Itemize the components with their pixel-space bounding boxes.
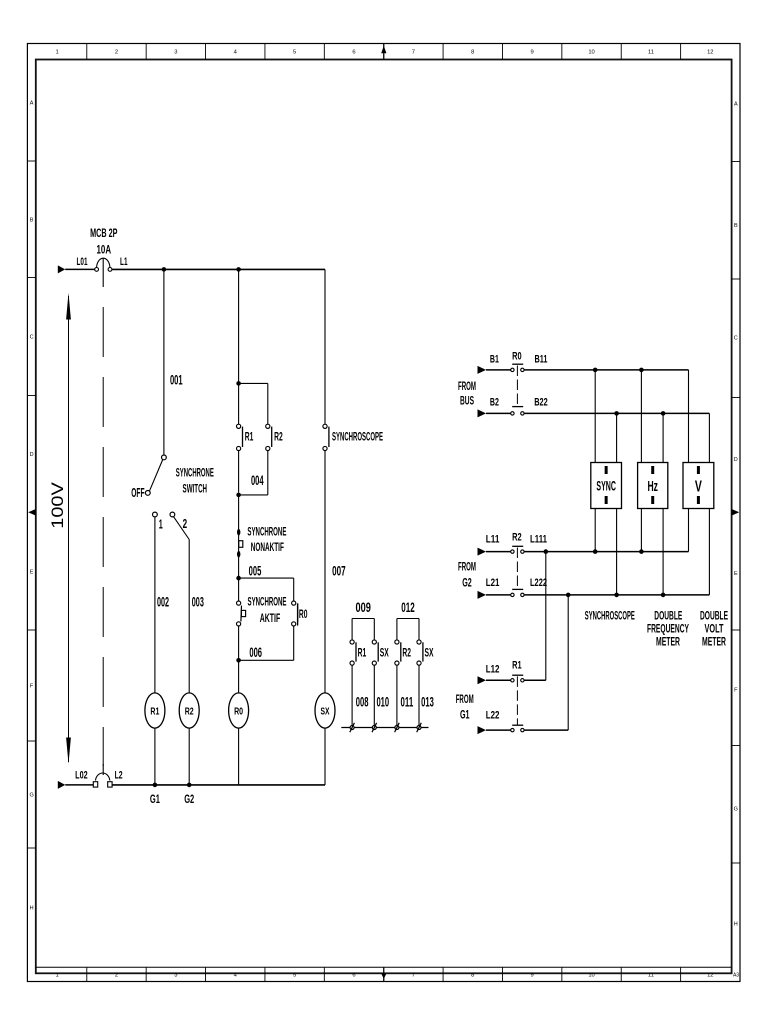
svg-text:SYNCHROSCOPE: SYNCHROSCOPE: [332, 431, 383, 443]
svg-text:10: 10: [588, 49, 594, 55]
contact aktif pushbutton: [237, 601, 246, 626]
lamp SX: [315, 693, 335, 728]
label L01: [77, 256, 88, 268]
lamp R0: [229, 693, 249, 728]
label L11: [486, 534, 500, 546]
junction at R0 column tap: [236, 267, 241, 272]
svg-text:R0: R0: [512, 350, 522, 362]
wire R1 contact down: [238, 451, 240, 493]
svg-text:004: 004: [251, 473, 264, 488]
wire top bus L1: [112, 268, 325, 270]
terminal 011: [395, 723, 400, 732]
svg-text:G: G: [734, 807, 738, 813]
svg-text:2: 2: [183, 516, 188, 531]
svg-text:5: 5: [293, 49, 296, 55]
wire aktif left lower: [238, 626, 240, 660]
input arrow L11: [478, 548, 487, 556]
svg-text:12: 12: [707, 49, 713, 55]
svg-text:2: 2: [115, 973, 118, 979]
wire L111 to G1 row: [545, 552, 547, 681]
breaker R0 pole 2: [511, 407, 524, 415]
breaker R2 link (dashed): [516, 548, 518, 590]
svg-text:11: 11: [648, 973, 654, 979]
input arrow L12: [478, 676, 487, 684]
label OFF: [131, 485, 144, 500]
input arrow L22: [478, 726, 487, 734]
svg-text:DOUBLE: DOUBLE: [700, 610, 728, 622]
wire R0 column to lamp: [238, 660, 240, 693]
wire L21: [486, 594, 511, 596]
wire bottom bus L2: [112, 784, 325, 786]
svg-text:B2: B2: [490, 396, 499, 408]
label L1: [120, 256, 128, 268]
wire aktif right upper: [293, 578, 295, 601]
svg-text:E: E: [734, 571, 738, 577]
breaker R2 pole 2: [511, 589, 524, 596]
label 001: [170, 373, 183, 388]
breaker R1 pole 2: [511, 725, 524, 732]
label FROM G2: [458, 560, 476, 590]
indicator SYNCHRONE NONAKTIF: [237, 529, 243, 558]
circuit breaker MCB pole 2: [93, 764, 112, 787]
dimension arrow 100V: [66, 293, 71, 764]
label 10A: [97, 244, 112, 256]
svg-text:H: H: [30, 906, 34, 912]
label SYNCHROSCOPE switch: [332, 431, 383, 443]
svg-text:G1: G1: [460, 708, 470, 722]
wire L22: [486, 729, 511, 731]
input arrow L02: [58, 781, 65, 789]
svg-text:DOUBLE: DOUBLE: [654, 610, 682, 622]
label R1 link: [512, 659, 522, 671]
svg-text:G1: G1: [150, 792, 160, 806]
svg-text:D: D: [30, 452, 34, 458]
svg-text:NONAKTIF: NONAKTIF: [251, 542, 284, 554]
switch position contact 1: [153, 512, 158, 517]
svg-text:R1: R1: [512, 659, 522, 671]
label R2: [274, 431, 283, 443]
svg-text:7: 7: [412, 49, 415, 55]
label L22: [486, 709, 500, 721]
svg-text:B: B: [734, 223, 738, 229]
junction node 004 bottom: [236, 493, 241, 498]
svg-text:SYNCHROSCOPE: SYNCHROSCOPE: [585, 610, 635, 622]
wire 001 from bus to switch: [163, 269, 165, 455]
label 002: [157, 594, 169, 609]
wire L222 to G1 row: [567, 595, 569, 730]
svg-text:L111: L111: [530, 534, 547, 546]
svg-text:005: 005: [249, 563, 262, 578]
junction L111-sync: [593, 549, 598, 554]
label SYNCHRONE SWITCH: [176, 467, 214, 495]
label R1: [245, 431, 254, 443]
label synchroscope meter: [585, 610, 635, 622]
wire 005 top bar: [239, 577, 294, 579]
switch position contact 2: [170, 512, 175, 517]
label 2: [183, 516, 188, 531]
input arrow B1: [478, 366, 487, 374]
junction node 004 top: [236, 381, 241, 386]
svg-text:L222: L222: [530, 577, 547, 589]
svg-text:B11: B11: [535, 353, 548, 365]
switch blade to OFF: [150, 460, 163, 491]
input arrow L01: [58, 265, 65, 273]
svg-text:3: 3: [174, 49, 177, 55]
wire B1: [486, 369, 511, 371]
svg-text:FREQUENCY: FREQUENCY: [647, 624, 689, 636]
label L02: [75, 770, 88, 782]
label B11: [535, 353, 548, 365]
svg-text:010: 010: [376, 694, 389, 709]
label 005: [249, 563, 262, 578]
svg-text:5: 5: [293, 973, 296, 979]
lamp R2: [179, 693, 199, 728]
meter SYNC (synchroscope): [591, 463, 622, 509]
wire B2: [486, 412, 511, 414]
wire aktif left upper: [238, 578, 240, 601]
junction B22-sync: [614, 411, 619, 416]
wire L22 to L222 feeder: [524, 729, 568, 731]
svg-text:FROM: FROM: [458, 560, 476, 574]
svg-text:007: 007: [332, 564, 346, 579]
svg-text:METER: METER: [702, 637, 726, 649]
svg-text:1: 1: [55, 49, 58, 55]
wire L111 bus: [524, 551, 688, 553]
wire aktif right lower: [293, 626, 295, 660]
svg-text:G: G: [29, 793, 33, 799]
svg-text:6: 6: [352, 973, 355, 979]
label B1: [490, 353, 499, 365]
label 003: [192, 594, 204, 609]
wire R2 contact down: [267, 451, 269, 495]
svg-text:8: 8: [471, 973, 474, 979]
svg-text:METER: METER: [656, 637, 680, 649]
breaker R0 pole 1: [511, 364, 524, 371]
label B22: [534, 396, 548, 408]
svg-text:SYNCHRONE: SYNCHRONE: [176, 467, 214, 479]
svg-text:SYNCHRONE: SYNCHRONE: [247, 527, 286, 539]
terminal 008: [350, 723, 355, 732]
svg-text:OFF: OFF: [131, 485, 144, 500]
svg-text:SX: SX: [321, 705, 330, 717]
junction L111-hz: [639, 549, 644, 554]
svg-text:011: 011: [401, 694, 414, 709]
terminal 010: [372, 723, 377, 732]
wire L11: [486, 551, 511, 553]
label L21: [486, 577, 500, 589]
label 007: [332, 564, 346, 579]
terminal rail: [341, 727, 428, 729]
svg-text:SYNCHRONE: SYNCHRONE: [248, 597, 287, 609]
label double frequency meter: [647, 610, 689, 648]
svg-text:R0: R0: [299, 609, 308, 621]
svg-text:10A: 10A: [97, 244, 112, 256]
label R0 link: [512, 350, 522, 362]
svg-text:L1: L1: [120, 256, 128, 268]
input arrow B2: [478, 409, 487, 417]
svg-text:B: B: [30, 217, 34, 223]
wire L01 to breaker: [65, 268, 94, 270]
svg-text:SWITCH: SWITCH: [183, 484, 208, 496]
junction L222 feeder: [566, 593, 571, 598]
junction L222-hz: [661, 593, 666, 598]
wire lamp R2 to bus: [188, 728, 190, 785]
label FROM BUS: [458, 379, 476, 407]
switch OFF terminal: [145, 491, 150, 496]
svg-text:8: 8: [471, 49, 474, 55]
label MCB 2P: [90, 228, 118, 240]
wire SX column upper: [324, 269, 326, 424]
wire B11 bus: [524, 369, 688, 371]
svg-text:VOLT: VOLT: [705, 624, 724, 636]
svg-text:L22: L22: [486, 709, 500, 721]
svg-text:L11: L11: [486, 534, 500, 546]
wire R0 column upper: [238, 269, 240, 424]
contact SYNCHROSCOPE: [323, 424, 329, 450]
breaker R2 pole 1: [511, 546, 524, 553]
svg-text:SX: SX: [425, 647, 434, 659]
input arrow L21: [478, 591, 487, 599]
svg-text:SX: SX: [380, 647, 389, 659]
svg-text:Hz: Hz: [647, 478, 658, 495]
svg-text:R2: R2: [402, 647, 411, 659]
junction L111 feeder: [544, 549, 549, 554]
svg-text:9: 9: [531, 973, 534, 979]
contact R0: [292, 601, 298, 626]
selector switch pivot: [162, 455, 167, 460]
wire L12: [486, 679, 511, 681]
svg-text:L01: L01: [77, 256, 88, 268]
contact block 012 (R2/SX): [395, 600, 434, 725]
svg-text:D: D: [734, 457, 738, 463]
breaker R0 link (dashed): [516, 366, 518, 407]
wire 006 bottom bar: [239, 659, 294, 661]
svg-text:L2: L2: [115, 770, 123, 782]
wire 004 top bar: [239, 382, 268, 384]
contact block 009 (R1/SX): [350, 600, 389, 725]
svg-text:SYNC: SYNC: [596, 478, 616, 493]
lamp R1: [145, 693, 165, 728]
svg-text:1: 1: [55, 973, 58, 979]
svg-text:R2: R2: [274, 431, 283, 443]
label 006: [249, 645, 262, 660]
label SYNCHRONE AKTIF: [248, 597, 287, 626]
svg-text:R1: R1: [358, 647, 367, 659]
wire R0 column mid1: [238, 495, 240, 578]
svg-text:E: E: [30, 569, 34, 575]
contact R2: [266, 424, 272, 450]
svg-text:009: 009: [356, 600, 371, 615]
svg-text:6: 6: [352, 49, 355, 55]
circuit breaker MCB pole 1: [95, 258, 112, 287]
svg-text:R2: R2: [185, 705, 194, 717]
label G2: [184, 792, 194, 806]
svg-text:V: V: [695, 478, 702, 495]
breaker R1 link (dashed): [516, 676, 518, 725]
svg-text:A3: A3: [733, 972, 739, 978]
wire volt left feeder: [688, 370, 690, 552]
svg-text:2: 2: [115, 49, 118, 55]
svg-text:L21: L21: [486, 577, 500, 589]
svg-text:11: 11: [648, 49, 654, 55]
meter V (volt): [683, 463, 714, 509]
junction at switch 001 tap: [162, 267, 167, 272]
wire R2 branch upper: [267, 383, 269, 424]
svg-text:G2: G2: [462, 575, 472, 589]
label double volt meter: [700, 610, 728, 648]
svg-text:3: 3: [174, 973, 177, 979]
svg-text:013: 013: [421, 694, 434, 709]
svg-text:006: 006: [249, 645, 262, 660]
svg-text:C: C: [734, 336, 738, 342]
svg-text:C: C: [30, 335, 34, 341]
wire L02 to breaker: [65, 784, 93, 786]
meter Hz (frequency): [638, 463, 668, 509]
label L2: [115, 770, 123, 782]
label G1: [150, 792, 160, 806]
label FROM G1: [456, 692, 474, 722]
svg-text:MCB 2P: MCB 2P: [90, 228, 118, 240]
svg-text:9: 9: [531, 49, 534, 55]
breaker mechanical link (dashed): [102, 307, 104, 766]
svg-text:008: 008: [356, 694, 369, 709]
svg-text:002: 002: [157, 594, 169, 609]
svg-text:100V: 100V: [48, 481, 67, 528]
label 100V: [48, 481, 67, 528]
svg-text:10: 10: [588, 973, 594, 979]
label L12: [486, 664, 500, 676]
svg-text:1: 1: [159, 517, 163, 532]
svg-text:G2: G2: [184, 792, 194, 806]
svg-text:A: A: [30, 100, 34, 106]
wire lamp R1 to bus: [154, 728, 156, 785]
junction B11-hz: [639, 368, 644, 373]
wire L222 bus: [524, 594, 709, 596]
wire L12 to L111 feeder: [524, 679, 546, 681]
wire lamp R0 to bus: [238, 728, 240, 785]
label L111: [530, 534, 547, 546]
svg-text:003: 003: [192, 594, 204, 609]
svg-text:L02: L02: [75, 770, 88, 782]
terminal 013: [417, 723, 422, 732]
wire sync left feeder: [594, 370, 596, 552]
label B2: [490, 396, 499, 408]
breaker R1 pole 1: [511, 675, 524, 682]
junction node 005: [236, 576, 241, 581]
wire B22 bus: [524, 412, 709, 414]
wire hz right feeder: [662, 413, 664, 595]
svg-text:R1: R1: [150, 705, 159, 717]
wire hz left feeder: [640, 370, 642, 552]
junction B11-sync: [593, 368, 598, 373]
svg-text:A: A: [734, 102, 738, 108]
label R2 link: [512, 531, 522, 543]
svg-text:B22: B22: [534, 396, 548, 408]
wire volt right feeder: [708, 413, 710, 595]
junction G1: [153, 783, 158, 788]
junction node 006: [236, 658, 241, 663]
wire 007 SX column: [324, 451, 326, 693]
wire lamp SX to bus: [324, 728, 326, 785]
wire sync right feeder: [616, 413, 618, 595]
svg-text:12: 12: [707, 973, 713, 979]
contact R1: [237, 424, 243, 450]
label R0: [299, 609, 308, 621]
svg-text:AKTIF: AKTIF: [260, 613, 281, 625]
svg-text:FROM: FROM: [458, 379, 476, 393]
svg-text:BUS: BUS: [460, 393, 474, 407]
label SYNCHRONE NONAKTIF: [247, 527, 286, 554]
wire 002 contact1 to lamp R1: [154, 517, 156, 693]
wire 003 contact2 to lamp R2: [173, 516, 189, 692]
svg-text:012: 012: [401, 600, 415, 615]
junction G2: [187, 783, 192, 788]
svg-text:B1: B1: [490, 353, 499, 365]
svg-text:R1: R1: [245, 431, 254, 443]
svg-text:R2: R2: [512, 531, 522, 543]
svg-text:H: H: [734, 922, 738, 928]
label 1: [159, 517, 163, 532]
svg-text:7: 7: [412, 973, 415, 979]
junction B22-hz: [661, 411, 666, 416]
svg-text:FROM: FROM: [456, 692, 474, 706]
svg-text:L12: L12: [486, 664, 500, 676]
label L222: [530, 577, 547, 589]
wire 004 bottom bar: [239, 494, 268, 496]
svg-text:R0: R0: [234, 705, 243, 717]
label 004: [251, 473, 264, 488]
junction L222-sync: [614, 593, 619, 598]
svg-text:001: 001: [170, 373, 183, 388]
